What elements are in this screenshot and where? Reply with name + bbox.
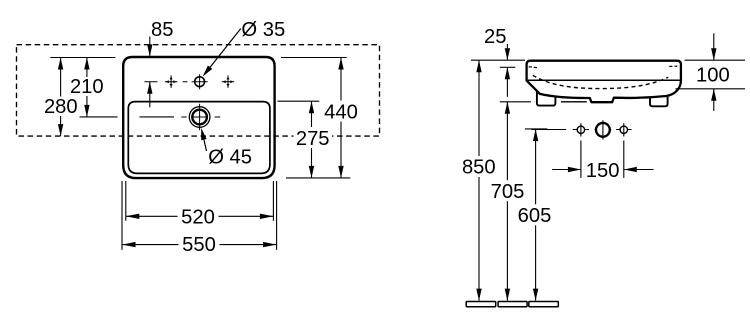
overflow hole inner circle <box>192 110 207 125</box>
rear foot hidden edge (side view) <box>561 101 587 103</box>
basin inner rim outline (top view) <box>128 102 270 174</box>
dimension 440 text <box>322 101 361 122</box>
dimension 605 reference tick <box>525 128 548 130</box>
dimension 210 text <box>69 77 105 96</box>
dimension 210 bottom extension line <box>80 116 175 118</box>
svg-text:850: 850 <box>462 157 496 179</box>
dimension 85 line lower with up arrow <box>149 82 151 108</box>
dimension 280 arrows <box>58 58 63 70</box>
hidden bowl dashed curve (side view) <box>533 75 668 88</box>
dimension 275 top extension line <box>278 100 320 102</box>
dimension 275 text <box>294 127 333 148</box>
dimension 550 arrows <box>122 242 136 247</box>
dimension 440 line <box>340 58 342 178</box>
svg-text:100: 100 <box>696 65 730 87</box>
dimension 280 line <box>60 58 62 137</box>
svg-text:210: 210 <box>70 76 104 98</box>
dimension 705 line <box>506 102 508 301</box>
centre tap hole (side view) <box>596 123 610 137</box>
rim corner hidden dashes right <box>669 65 677 67</box>
dimension 520 line <box>126 215 274 217</box>
svg-text:150: 150 <box>586 160 620 182</box>
faucet hole crosshair <box>192 74 208 89</box>
basin body outline (side view) <box>527 61 681 102</box>
svg-text:550: 550 <box>182 234 216 256</box>
dimension 705 text <box>487 180 528 201</box>
svg-text:280: 280 <box>44 96 78 118</box>
dimension 275 arrows <box>309 101 314 113</box>
right tap-hole position cross <box>222 76 234 88</box>
svg-text:705: 705 <box>491 181 525 203</box>
dimension 100 upper line with down arrow <box>713 33 715 59</box>
dimension 210 line <box>86 58 88 117</box>
countertop dashed rectangle <box>17 45 380 136</box>
dimension 25 upper line with down arrow <box>506 44 508 60</box>
extension line top of basin (left side) <box>471 59 525 61</box>
dimension 850 text <box>458 156 500 177</box>
dimension 705 reference tick <box>500 101 531 103</box>
dimension 605 line <box>535 129 537 301</box>
dimension 100 bottom extension line <box>676 88 746 90</box>
hole centerline dashes <box>145 81 188 83</box>
rim corner hidden dashes left <box>529 66 537 69</box>
dimension 100 lower line with up arrow <box>713 89 715 111</box>
fixing holes centerline (side view) <box>531 129 631 131</box>
dimension 100 top extension line <box>685 59 746 61</box>
right mounting foot (side view) <box>650 92 668 106</box>
dimension 605 text <box>514 204 555 225</box>
svg-text:440: 440 <box>324 101 358 123</box>
dimension 280 text <box>42 97 80 117</box>
svg-text:605: 605 <box>518 205 552 227</box>
basin outer outline (top view) <box>123 57 274 178</box>
left fixing hole <box>577 126 584 133</box>
dimension 550 extension lines <box>122 181 277 250</box>
overflow centerline dashes <box>181 116 220 118</box>
dimension 520 text <box>178 206 219 227</box>
dimension 150 right line with left arrow <box>624 169 654 171</box>
svg-text:Ø 45: Ø 45 <box>208 147 252 169</box>
dimension 210 arrows <box>84 58 89 70</box>
extension line rear edge (left) <box>50 57 115 59</box>
svg-text:25: 25 <box>484 26 506 48</box>
overflow crosshair <box>192 104 208 130</box>
dimension 275 line <box>311 101 313 178</box>
svg-text:85: 85 <box>151 19 173 41</box>
faucet hole circle O35 <box>195 77 205 87</box>
svg-text:520: 520 <box>181 207 215 229</box>
left mounting foot (side view) <box>537 92 556 106</box>
dimension 850 line <box>478 60 480 300</box>
dimension 520 extension lines <box>126 181 274 221</box>
overflow hole outer circle O45 <box>189 107 210 128</box>
label O35 leader arrowhead <box>203 66 213 77</box>
label O45 leader arrowhead <box>201 128 206 140</box>
dimension 150 left line with right arrow <box>552 169 581 171</box>
dimension 25 lower reference tick <box>500 66 516 68</box>
dimension 440 top extension line <box>281 57 347 59</box>
dimension 440 arrows <box>338 58 343 70</box>
rim bottom edge line (side view) <box>528 79 680 81</box>
dimension 85 line upper with down arrow <box>149 37 151 56</box>
dimension 550 line <box>122 244 277 246</box>
right fixing hole <box>620 126 627 133</box>
svg-text:Ø 35: Ø 35 <box>241 19 285 41</box>
label O45 leader line <box>204 140 207 151</box>
left tap-hole position cross <box>165 76 177 88</box>
label O35 leader line <box>210 29 241 68</box>
dimension 150 extension lines <box>581 141 624 178</box>
floor tile middle <box>498 302 527 307</box>
bottom extension line right of basin <box>286 177 350 179</box>
svg-text:275: 275 <box>296 128 330 150</box>
floor tile left <box>466 302 496 307</box>
dimension 25 lower line with up arrow <box>506 67 508 97</box>
dimension 520 arrows <box>126 214 140 219</box>
floor tile right <box>529 302 559 307</box>
dimension 550 text <box>179 234 220 255</box>
